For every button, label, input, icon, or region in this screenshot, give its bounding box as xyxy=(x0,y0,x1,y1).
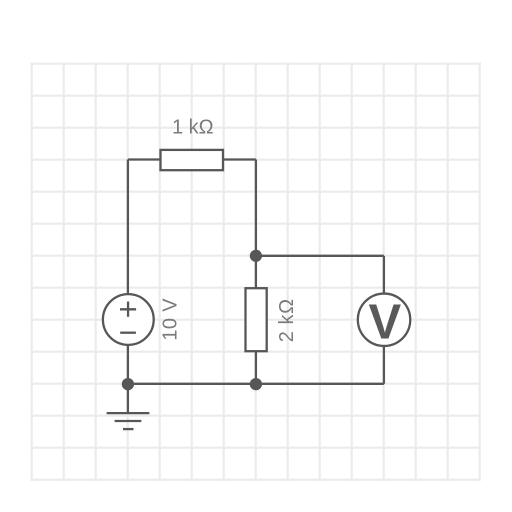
wire horizontal from node A to voltmeter branch xyxy=(256,255,384,257)
wire vertical from node A down to R2 top xyxy=(255,256,257,288)
ground symbol bars xyxy=(107,413,150,429)
resistor R1 (1 kOhm) body xyxy=(161,150,224,170)
wire vertical from corner down to voltmeter top xyxy=(383,256,385,295)
voltage source V1 minus sign xyxy=(120,332,136,334)
voltage source V1 circle xyxy=(103,294,154,345)
voltmeter M1 circle xyxy=(358,294,410,346)
wire left vertical from top rail to V1 top xyxy=(127,160,129,295)
svg-text:1 kΩ: 1 kΩ xyxy=(172,117,214,139)
ground stem wire xyxy=(127,384,129,413)
wire top-right horizontal from R1 right lead to right branch xyxy=(222,158,256,160)
wire vertical from R2 bottom to bottom rail xyxy=(255,351,257,384)
wire vertical from voltmeter bottom to bottom rail xyxy=(383,345,385,384)
wire right vertical from R1 down to node A xyxy=(255,160,257,256)
wire bottom rail horizontal xyxy=(128,383,384,385)
node A junction dot (top) xyxy=(250,250,262,262)
node junction dot bottom left xyxy=(122,378,134,390)
resistor R2 (2 kOhm) body xyxy=(246,288,267,351)
voltage source V1 plus sign xyxy=(120,302,136,317)
wire left vertical from V1 bottom to bottom rail xyxy=(127,345,129,383)
svg-text:2 kΩ: 2 kΩ xyxy=(276,298,298,342)
svg-text:V: V xyxy=(368,296,401,350)
node junction dot bottom middle xyxy=(250,378,262,390)
wire top-left horizontal from V1 branch to R1 left lead xyxy=(128,158,161,160)
svg-text:10 V: 10 V xyxy=(160,298,182,341)
